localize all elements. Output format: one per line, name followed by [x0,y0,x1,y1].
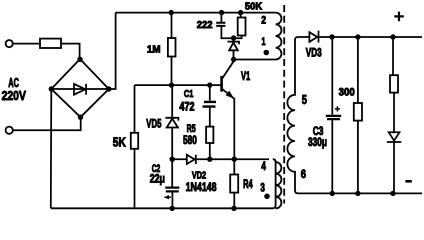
wire 50K bottom [234,36,242,39]
svg-text:VD5: VD5 [146,119,162,131]
resistor right branch [390,75,398,92]
node bridge left [49,86,54,91]
capacitor C3 wire [331,37,333,193]
right branch wire top [392,37,394,75]
plus output label [394,12,404,22]
node 1M top [169,10,174,15]
bridge inner diode line [51,88,109,90]
resistor R5 [206,127,213,143]
node C3 bottom [330,191,335,196]
node R4 bottom rail [231,206,236,211]
capacitor C1 wire [209,85,211,127]
top rail + transformer winding 2-1 coil [116,13,282,60]
capacitor C2 polarity arrow [165,196,172,198]
wire [13,43,40,45]
svg-text:R4: R4 [243,179,253,191]
AC input terminal bottom [6,127,13,134]
transformer core dashed line [283,5,285,204]
node right branch top [390,34,395,39]
wire [171,57,173,86]
transistor V1 emitter [222,89,234,99]
capacitor 222 wire [221,13,233,39]
node emitter/VD2 row [232,157,237,162]
winding 1 polarity dot [264,50,270,56]
capacitor C3 [326,116,341,119]
resistor R4 [230,175,238,193]
wire 300 bottom [357,121,359,194]
winding 4-3 bumps [276,162,282,208]
node bridge top [77,57,82,62]
diode VD3 [309,31,318,43]
svg-text:330μ: 330μ [308,137,327,149]
base wire [135,84,221,86]
emitter column wire [233,98,235,175]
wire AC2 to bridge bottom [13,117,81,130]
winding 3 polarity dot [264,194,270,200]
node 222 top [219,10,224,15]
wire [393,93,395,132]
zener VD5 [165,118,178,128]
zener VD5 wire [171,85,173,159]
capacitor 222 [216,23,225,26]
svg-text:2: 2 [261,15,266,27]
svg-text:4: 4 [261,161,266,173]
resistor 5K [131,133,138,149]
wire R4 bottom [233,193,235,209]
capacitor C2 wire [171,159,173,208]
node right branch bottom [390,191,395,196]
svg-text:22μ: 22μ [150,173,165,185]
bottom rail + transformer winding 4-3 coil [51,159,276,208]
svg-text:1N4148: 1N4148 [186,182,217,194]
wire [134,149,136,209]
svg-text:5K: 5K [113,136,126,150]
wire [61,44,80,59]
resistor fuse (input series resistor) [40,39,61,48]
bridge inner diode [74,84,86,95]
svg-text:6: 6 [301,169,306,181]
node bridge right [106,86,111,91]
node 300 bottom [355,191,360,196]
wire 5K branch [134,85,136,133]
svg-text:3: 3 [260,183,265,195]
secondary winding 5-6 [287,37,422,193]
zener VD4 [228,38,240,60]
node 50K top [238,10,243,15]
wire bridge left to bottom rail [50,89,53,208]
resistor 1M [168,38,176,57]
capacitor C1 [203,102,217,107]
node collector/zener/winding1 [231,57,236,62]
node R5/VD2 [207,157,212,162]
svg-text:580: 580 [183,135,197,147]
node C3 top [329,34,334,39]
bridge rectifier [51,59,109,117]
svg-text:C1: C1 [184,88,194,100]
wire [171,13,173,38]
svg-text:VD2: VD2 [192,171,207,182]
svg-text:1M: 1M [147,43,161,55]
svg-text:50K: 50K [245,1,263,13]
node base/1M [169,82,174,87]
wire VD2 row [172,158,269,160]
transistor V1 base bar [220,76,223,92]
wire R5 bottom [209,143,211,159]
C3 plus mark [335,106,340,111]
diode VD2 [187,155,196,164]
resistor 300 wire [357,37,359,103]
node base/C1 [207,82,212,87]
wire [240,13,242,18]
minus output label [405,180,411,183]
transistor V1 collector [222,61,234,79]
node VD2 left [170,157,175,162]
node zener top [231,35,236,40]
wire bridge right up to top rail [109,13,116,89]
svg-text:VD3: VD3 [306,48,322,60]
resistor 300 [354,103,362,121]
svg-text:5: 5 [302,92,307,107]
svg-text:300: 300 [339,87,355,99]
transistor V1 emitter arrow [226,91,235,99]
svg-text:222: 222 [197,19,213,31]
AC input terminal top [6,40,13,47]
svg-text:V1: V1 [241,71,250,83]
node bridge bottom [78,115,83,120]
svg-text:R5: R5 [187,123,196,135]
resistor 50K [238,18,246,36]
svg-text:472: 472 [179,102,194,114]
capacitor C2 [165,188,179,192]
diode indicator [387,132,402,193]
secondary top rail [319,36,423,38]
svg-text:220V: 220V [2,88,27,103]
svg-text:1: 1 [262,36,266,48]
node 300 top [355,34,360,39]
node C2 bottom [170,206,175,211]
